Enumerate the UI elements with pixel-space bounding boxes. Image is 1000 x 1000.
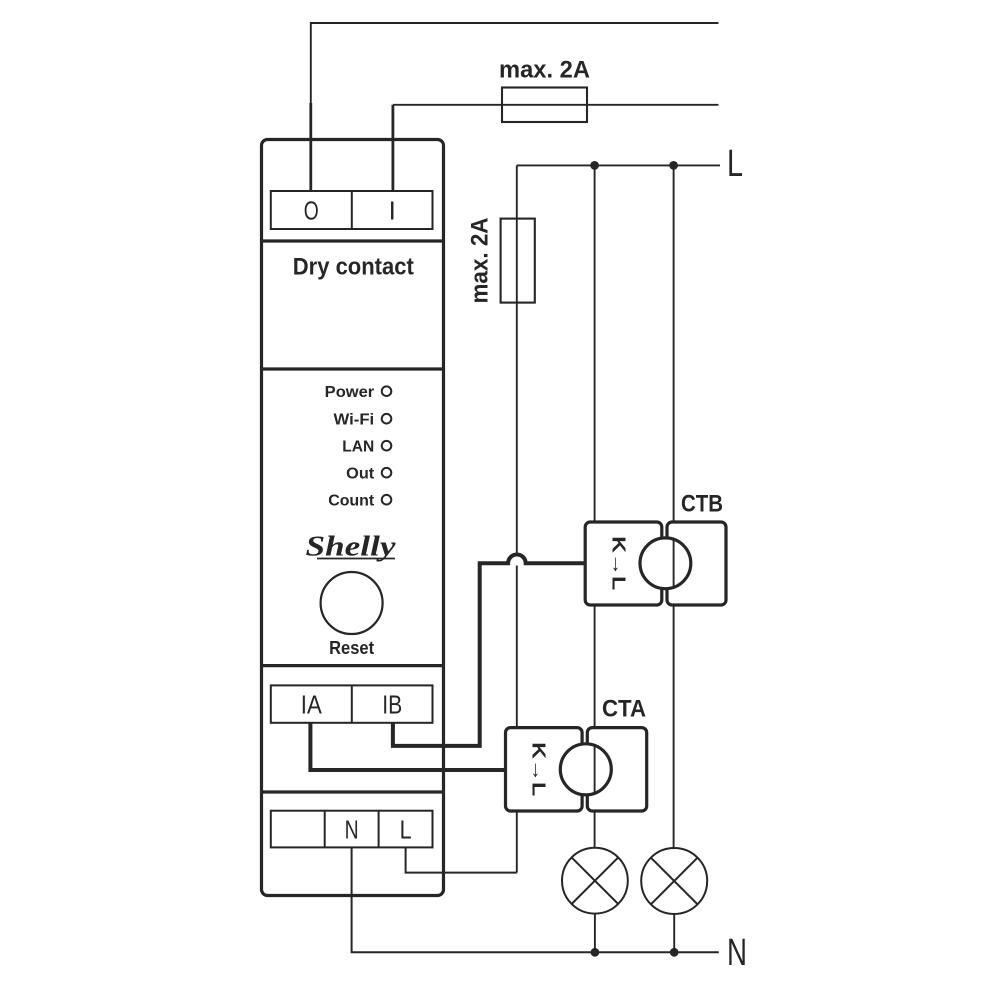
- svg-text:CTB: CTB: [681, 491, 723, 518]
- terminal block IA/IB: [271, 685, 433, 722]
- svg-text:L: L: [400, 815, 412, 845]
- fuse F2 max. 2A (vertical): [501, 219, 535, 303]
- wire: top line from O: [311, 23, 719, 103]
- LED LAN: [382, 441, 392, 451]
- svg-text:I: I: [389, 196, 396, 226]
- LED Out: [382, 468, 392, 478]
- svg-text:Wi-Fi: Wi-Fi: [334, 412, 375, 429]
- wire: IB to CTB (thick, hops over fuse drop): [393, 554, 587, 745]
- junction dot N/lamp B: [670, 948, 679, 957]
- wire: IA to CTA (thick): [310, 723, 507, 770]
- wire: lamp branch B (through CTB): [673, 165, 675, 847]
- svg-text:O: O: [304, 196, 319, 226]
- lamp A: [562, 848, 628, 914]
- wire: line from I through fuse F1: [393, 104, 719, 106]
- LED Power: [382, 386, 392, 396]
- wire: L terminal to fuse drop: [406, 847, 517, 872]
- svg-text:K→L: K→L: [529, 742, 549, 796]
- wire: lamp B to N bus: [673, 914, 675, 952]
- lamp B: [641, 848, 707, 914]
- wire: lamp branch A (through CTA): [594, 165, 596, 847]
- junction dot N/lamp A: [591, 948, 600, 957]
- svg-text:Dry contact: Dry contact: [293, 254, 414, 281]
- svg-text:N: N: [727, 932, 747, 974]
- svg-text:LAN: LAN: [342, 439, 374, 456]
- svg-text:L: L: [727, 143, 743, 185]
- section separator below O/I terminals: [262, 239, 444, 242]
- svg-text:max. 2A: max. 2A: [499, 57, 590, 84]
- svg-text:Out: Out: [346, 466, 375, 483]
- fuse F1 max. 2A (horizontal): [502, 88, 587, 123]
- CT clamp CTB: [585, 522, 726, 605]
- svg-text:IA: IA: [301, 690, 323, 720]
- svg-text:CTA: CTA: [602, 696, 646, 723]
- section separator above IA/IB terminals: [262, 664, 444, 667]
- terminal block blank/N/L: [271, 811, 433, 848]
- svg-text:Power: Power: [325, 384, 375, 401]
- svg-text:IB: IB: [382, 690, 402, 720]
- LED Count: [382, 495, 392, 505]
- wire: lamp A to N bus: [594, 914, 596, 953]
- junction dot L/branch A: [590, 161, 599, 170]
- svg-text:N: N: [345, 815, 359, 845]
- junction dot L/branch B: [669, 161, 678, 170]
- Reset button: [321, 572, 383, 634]
- Shelly logo: [306, 531, 396, 563]
- wire: vertical drop from L through fuse F2, down to L-terminal wire: [516, 165, 518, 554]
- svg-text:Count: Count: [328, 493, 375, 510]
- svg-text:max. 2A: max. 2A: [467, 218, 494, 304]
- wire: I pigtail: [391, 105, 394, 192]
- wire: N terminal down to N bus: [352, 847, 719, 952]
- section separator above N/L terminals: [262, 790, 444, 793]
- wire: O pigtail: [309, 103, 312, 192]
- section separator below Dry contact: [262, 367, 444, 370]
- LED Wi-Fi: [382, 414, 392, 424]
- CT clamp CTA: [506, 728, 647, 811]
- terminal block O/I: [271, 191, 433, 229]
- wire: L bus line: [517, 164, 720, 166]
- svg-text:K→L: K→L: [609, 536, 629, 590]
- svg-text:Reset: Reset: [329, 638, 374, 658]
- device body (Shelly module outline): [262, 140, 444, 896]
